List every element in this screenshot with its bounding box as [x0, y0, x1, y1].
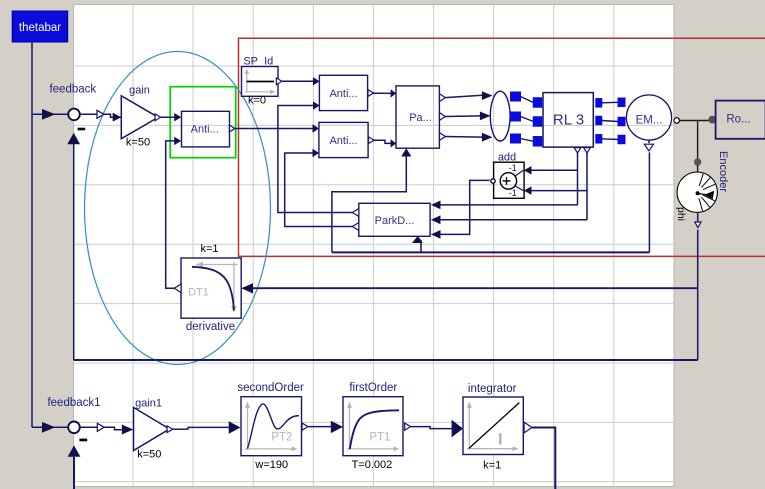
- svg-text:Pa...: Pa...: [409, 112, 432, 124]
- svg-text:feedback1: feedback1: [47, 397, 100, 409]
- svg-text:PT2: PT2: [271, 432, 292, 444]
- svg-text:Anti...: Anti...: [191, 123, 219, 135]
- svg-text:w=190: w=190: [254, 459, 288, 471]
- svg-text:PT1: PT1: [369, 432, 390, 444]
- svg-text:k=1: k=1: [483, 460, 501, 472]
- svg-text:DT1: DT1: [188, 287, 209, 299]
- svg-text:Encoder: Encoder: [717, 151, 729, 192]
- svg-text:Ro...: Ro...: [726, 114, 750, 126]
- svg-text:-1: -1: [509, 188, 517, 198]
- svg-text:derivative: derivative: [186, 321, 235, 333]
- svg-text:secondOrder: secondOrder: [237, 382, 304, 394]
- svg-text:k=50: k=50: [126, 136, 150, 148]
- svg-text:add: add: [498, 151, 516, 163]
- svg-text:phi: phi: [675, 207, 687, 221]
- svg-text:EM...: EM...: [636, 115, 663, 127]
- svg-text:k=50: k=50: [137, 448, 161, 460]
- svg-text:T=0.002: T=0.002: [352, 459, 393, 471]
- svg-text:gain: gain: [129, 85, 150, 97]
- svg-text:Anti...: Anti...: [329, 135, 357, 147]
- svg-text:k=0: k=0: [248, 95, 266, 107]
- svg-text:integrator: integrator: [468, 383, 517, 395]
- svg-text:ParkD...: ParkD...: [375, 215, 415, 227]
- svg-text:firstOrder: firstOrder: [349, 382, 397, 394]
- svg-text:feedback: feedback: [49, 83, 96, 95]
- svg-text:k=1: k=1: [200, 243, 218, 255]
- svg-text:-1: -1: [509, 163, 517, 173]
- svg-text:thetabar: thetabar: [19, 22, 61, 34]
- svg-text:gain1: gain1: [135, 397, 162, 409]
- svg-text:RL 3: RL 3: [553, 112, 584, 129]
- svg-text:Anti...: Anti...: [329, 88, 357, 100]
- svg-text:SP_Id: SP_Id: [243, 55, 273, 67]
